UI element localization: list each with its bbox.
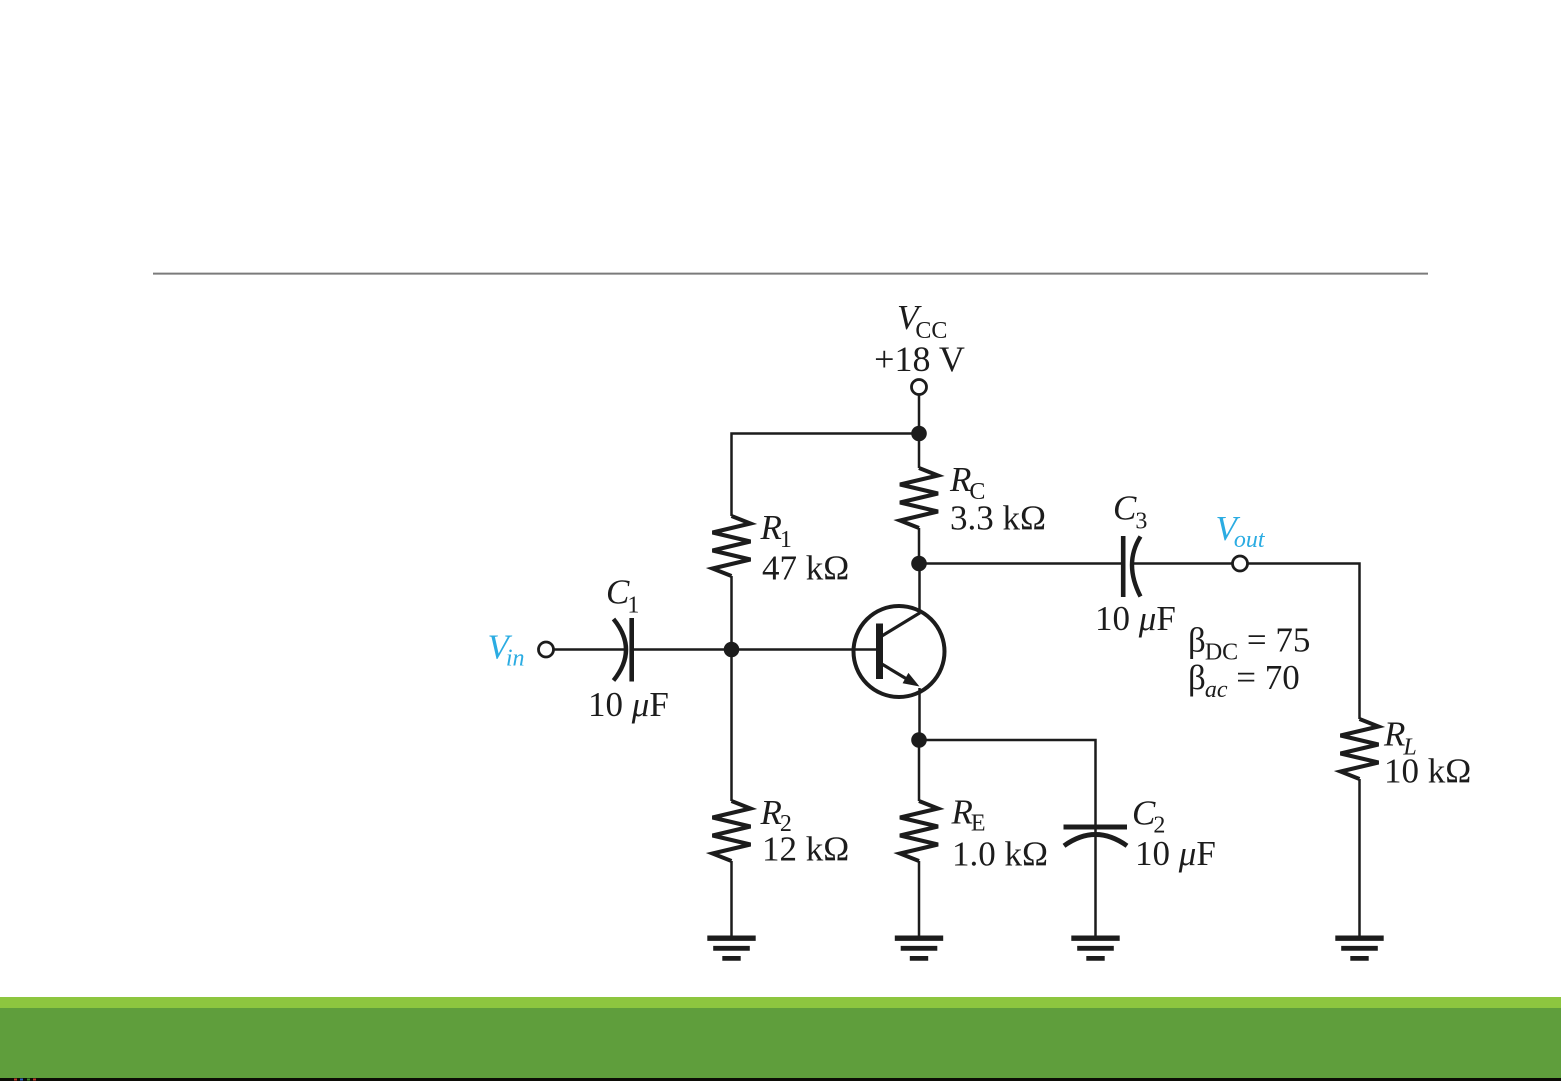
svg-text:10 kΩ: 10 kΩ: [1384, 752, 1471, 791]
wire collector node to transistor: [918, 564, 921, 614]
transistor Q1: [854, 606, 945, 697]
footer watermark dots: [14, 1079, 36, 1081]
wire RE to ground: [918, 861, 921, 937]
footer dark green band: [0, 1008, 1561, 1078]
footer bottom black strip: [0, 1078, 1561, 1081]
resistor R2: [713, 801, 751, 861]
wire C3 to Vout terminal: [1131, 562, 1233, 565]
wire Vout terminal to RL corner: [1247, 564, 1359, 720]
resistor RE: [900, 801, 938, 861]
terminal Vout: [1233, 556, 1248, 571]
wire emitter node to RE: [918, 740, 921, 801]
svg-text:3.3 kΩ: 3.3 kΩ: [950, 499, 1046, 538]
capacitor C1: [614, 618, 632, 682]
ground R2: [707, 938, 755, 958]
wire base node to R2: [730, 650, 733, 802]
ground RL: [1335, 938, 1383, 958]
terminal VCC: [912, 380, 927, 395]
wire RL to ground: [1358, 779, 1361, 937]
wire top node to RC: [918, 434, 921, 469]
svg-text:10 μF: 10 μF: [1095, 599, 1176, 638]
wire collector node to C3: [919, 562, 1123, 565]
wire R2 to ground: [730, 861, 733, 937]
wire VCC terminal to top node: [918, 394, 921, 433]
resistor RL: [1341, 719, 1379, 779]
ground C2: [1071, 938, 1119, 958]
node emitter junction: [911, 732, 927, 748]
node base junction: [724, 642, 740, 658]
divider rule: [153, 273, 1428, 275]
wire C2 to ground: [1094, 836, 1097, 937]
wire emitter to emitter node: [918, 688, 921, 740]
terminal Vin: [539, 642, 554, 657]
svg-text:+18 V: +18 V: [874, 339, 965, 379]
capacitor C3: [1123, 536, 1140, 597]
wire Vin terminal to C1: [553, 648, 626, 651]
svg-text:βac = 70: βac = 70: [1188, 658, 1300, 703]
node top junction: [911, 426, 927, 442]
resistor RC: [900, 468, 938, 528]
footer light green band: [0, 997, 1561, 1008]
wire emitter node to C2: [919, 740, 1096, 836]
svg-text:10 μF: 10 μF: [588, 685, 669, 724]
ground RE: [895, 938, 943, 958]
svg-text:47 kΩ: 47 kΩ: [762, 549, 849, 588]
svg-text:10 μF: 10 μF: [1135, 834, 1216, 873]
node collector junction: [911, 556, 927, 572]
svg-text:1.0 kΩ: 1.0 kΩ: [952, 835, 1048, 874]
svg-text:12 kΩ: 12 kΩ: [762, 830, 849, 869]
wire R1 to base node: [730, 576, 733, 650]
wire C1 to base: [632, 648, 877, 651]
wire top rail to R1: [732, 434, 920, 517]
capacitor C2: [1064, 827, 1128, 846]
resistor R1: [713, 516, 751, 576]
wire RC to collector node: [918, 528, 921, 564]
